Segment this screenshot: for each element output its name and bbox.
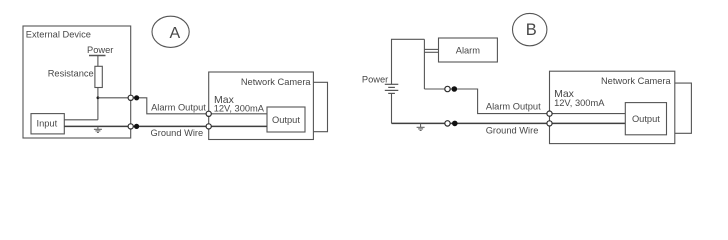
wire dot A alarm	[134, 95, 139, 100]
wire dot B alarm	[452, 86, 458, 92]
ground wire A	[64, 125, 267, 127]
network camera box B	[550, 71, 675, 143]
port circle camera B alarm	[547, 111, 552, 116]
callout circle B	[513, 13, 547, 45]
svg-text:Output: Output	[632, 114, 660, 124]
wire battery to top run B	[392, 39, 425, 84]
callout circle A	[152, 16, 189, 47]
node open circle B alarm	[445, 86, 450, 91]
wire dot A ground	[134, 124, 139, 129]
wire stub to alarm box lower	[424, 51, 438, 53]
port circle camera B ground	[547, 121, 552, 126]
port circle camera A ground	[206, 124, 211, 129]
external device box	[23, 26, 131, 138]
svg-text:Ground Wire: Ground Wire	[486, 126, 539, 136]
input box A	[31, 114, 64, 134]
svg-text:Alarm Output: Alarm Output	[151, 103, 206, 113]
svg-text:Power: Power	[362, 74, 388, 84]
svg-text:12V, 300mA: 12V, 300mA	[214, 104, 265, 114]
ground symbol A	[94, 126, 102, 132]
svg-text:Ground Wire: Ground Wire	[151, 128, 204, 138]
wire stub to alarm box upper	[424, 48, 438, 50]
ground wire B	[392, 122, 626, 124]
output box A	[267, 107, 305, 132]
svg-text:A: A	[169, 25, 180, 42]
battery symbol B	[385, 84, 399, 93]
wire alarm output run B	[424, 89, 625, 114]
camera loop bracket B	[675, 83, 692, 133]
wire alarm output run A	[137, 98, 268, 114]
svg-text:Alarm Output: Alarm Output	[486, 101, 541, 111]
port circle A alarm (device edge)	[128, 95, 133, 100]
svg-text:Output: Output	[272, 115, 300, 125]
camera loop bracket A	[313, 82, 327, 131]
svg-text:Resistance: Resistance	[48, 69, 94, 79]
wire input upper stub	[64, 119, 98, 121]
node open circle B ground	[445, 121, 450, 126]
svg-text:B: B	[526, 21, 537, 39]
svg-text:Network Camera: Network Camera	[241, 77, 312, 87]
power rail bar A	[89, 55, 106, 57]
output box B	[625, 103, 666, 135]
ground symbol B	[417, 123, 425, 130]
svg-text:Alarm: Alarm	[456, 46, 481, 56]
svg-text:12V, 300mA: 12V, 300mA	[554, 98, 605, 108]
svg-text:Power: Power	[87, 45, 113, 55]
wire power stem A	[97, 56, 99, 67]
svg-text:Network Camera: Network Camera	[601, 76, 672, 86]
port circle camera A alarm	[206, 111, 211, 116]
alarm box B	[439, 38, 498, 62]
wire junction to alarm port	[98, 97, 137, 99]
wire battery down to ground run B	[391, 93, 393, 123]
port circle A ground (device edge)	[128, 124, 133, 129]
wire dot B ground	[452, 121, 458, 127]
junction dot A	[97, 96, 100, 99]
network camera box A	[209, 72, 314, 140]
wire resistor lead down	[97, 88, 99, 120]
svg-text:External Device: External Device	[26, 30, 91, 40]
svg-text:Input: Input	[37, 119, 58, 129]
resistor R	[95, 66, 102, 87]
wire jog down to alarm node B	[423, 39, 425, 89]
